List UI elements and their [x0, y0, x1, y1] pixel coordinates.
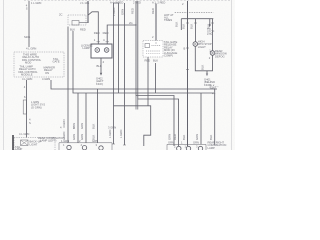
svg-text:LIGHT: LIGHT: [198, 45, 206, 49]
svg-text:BLK: BLK: [182, 135, 186, 140]
svg-text:LIGHT: LIGHT: [30, 142, 38, 146]
svg-text:KICK): KICK): [96, 82, 103, 86]
svg-text:1 L GRN: 1 L GRN: [31, 1, 41, 5]
svg-text:RED: RED: [131, 8, 135, 14]
svg-text:LAMP (LEFT): LAMP (LEFT): [40, 139, 56, 143]
svg-text:BLK: BLK: [209, 135, 213, 140]
svg-text:4 L GRN: 4 L GRN: [26, 47, 36, 51]
svg-text:BLK: BLK: [182, 24, 186, 29]
svg-text:S402: S402: [210, 86, 217, 90]
svg-text:RED: RED: [151, 8, 155, 14]
svg-text:DEFOG: DEFOG: [215, 54, 225, 58]
svg-text:BLK: BLK: [92, 124, 96, 129]
svg-text:BLK: BLK: [70, 27, 75, 31]
svg-text:COMP): COMP): [164, 54, 173, 58]
svg-text:B: B: [184, 47, 186, 51]
svg-text:J 1 10A: J 1 10A: [80, 1, 89, 5]
svg-text:MOD: MOD: [25, 61, 31, 65]
svg-text:2 RED: 2 RED: [133, 0, 141, 4]
svg-text:TIMES: TIMES: [164, 18, 172, 22]
svg-text:GRN: GRN: [80, 134, 84, 140]
svg-text:S: S: [26, 7, 28, 11]
svg-text:4 GRN: 4 GRN: [62, 119, 66, 128]
svg-text:4 L GRN: 4 L GRN: [19, 132, 29, 136]
svg-text:GRN: GRN: [92, 139, 98, 143]
svg-text:S: S: [29, 121, 31, 125]
svg-text:RED: RED: [94, 31, 100, 35]
svg-text:L GRN: L GRN: [119, 130, 123, 138]
svg-text:3 GRN: 3 GRN: [108, 126, 116, 130]
svg-text:RED: RED: [173, 134, 177, 140]
svg-text:MODULE: MODULE: [21, 73, 33, 77]
svg-text:LAMP: LAMP: [83, 46, 91, 50]
svg-text:S: S: [24, 95, 26, 99]
svg-text:GRN: GRN: [195, 134, 199, 140]
svg-text:4 L GRN: 4 L GRN: [22, 77, 32, 81]
svg-text:2G: 2G: [129, 21, 133, 25]
svg-text:ON: ON: [45, 71, 49, 75]
svg-text:BLK: BLK: [175, 22, 179, 27]
svg-text:GRN: GRN: [120, 9, 124, 15]
svg-text:LAMP: LAMP: [208, 146, 216, 150]
svg-text:BLK: BLK: [97, 64, 102, 68]
svg-text:RED: RED: [145, 59, 151, 63]
svg-text:GRN: GRN: [167, 134, 171, 140]
svg-text:GRN: GRN: [168, 141, 174, 145]
svg-text:2C: 2C: [59, 13, 62, 17]
svg-text:BLK: BLK: [201, 65, 205, 70]
svg-text:LTS: LTS: [207, 32, 212, 36]
svg-text:BLK: BLK: [153, 59, 158, 63]
svg-text:RED: RED: [103, 31, 109, 35]
svg-text:BLK: BLK: [190, 24, 194, 29]
svg-text:LAMP: LAMP: [15, 147, 23, 150]
svg-text:4 GRN: 4 GRN: [42, 77, 50, 81]
svg-text:GRN: GRN: [72, 134, 76, 140]
svg-text:L GRN: L GRN: [112, 8, 116, 16]
svg-text:RED: RED: [80, 27, 86, 31]
svg-text:GRN: GRN: [80, 123, 84, 129]
svg-text:A 4 2 RED: A 4 2 RED: [110, 0, 123, 4]
svg-text:L GRN: L GRN: [108, 130, 112, 138]
svg-text:GATE: GATE: [53, 60, 60, 64]
svg-text:S201: S201: [24, 35, 31, 39]
svg-text:A 1 2 RED: A 1 2 RED: [152, 0, 165, 4]
svg-text:GRN: GRN: [193, 141, 199, 145]
svg-text:(G GRN): (G GRN): [31, 105, 42, 109]
